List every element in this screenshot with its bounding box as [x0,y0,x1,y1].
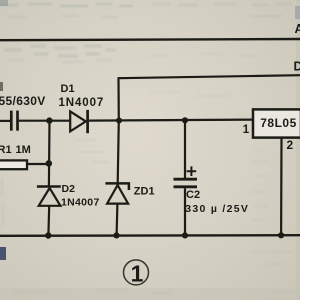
capacitor C1 [0,94,46,131]
wire D1 to regulator [89,120,253,121]
svg-text:A: A [295,22,301,36]
node junction at C2 column [182,117,188,123]
capacitor C2 330u/25V electrolytic [174,166,250,214]
diode D2 1N4007 [37,183,100,209]
svg-text:55/630V: 55/630V [0,94,46,108]
wire main rail from left edge to C1 [0,120,10,122]
node pin2 to bottom rail [278,232,284,238]
zener diode ZD1 [105,183,154,203]
node D2 bottom junction [45,232,51,238]
wire C2 column from rail down to C2 [184,120,186,178]
svg-text:1: 1 [131,260,144,286]
wire regulator pin 2 down to bottom rail [280,138,283,236]
wire C2 to bottom rail [184,188,186,235]
svg-text:330 µ /25V: 330 µ /25V [185,203,249,215]
wire bottom rail [0,234,300,237]
svg-text:D1: D1 [61,83,75,95]
voltage regulator U1 78L05 [253,109,301,137]
svg-text:1: 1 [243,124,250,136]
diode D1 1N4007 [59,83,105,133]
node ZD1 bottom junction [113,232,119,238]
wire left column down through R1 node to D2 [48,121,51,187]
wire D2 to bottom rail [47,206,50,236]
svg-text:R1: R1 [0,144,12,156]
wire net D (horizontal line bending down at left) [119,75,301,120]
svg-text:ZD1: ZD1 [134,186,155,198]
wire net A (top horizontal line) [0,39,300,40]
dark scan marks at edges (decorative) [0,82,3,91]
svg-text:2: 2 [287,138,294,152]
svg-text:1N4007: 1N4007 [59,97,105,109]
svg-text:78L05: 78L05 [260,116,297,130]
svg-text:C2: C2 [186,189,200,201]
node C2 bottom junction [182,232,188,238]
wire ZD1 to bottom rail [115,204,118,236]
node junction at net D column [116,118,122,124]
resistor R1 1M [0,144,46,169]
svg-text:D2: D2 [62,183,76,195]
wire net D column continues down to ZD1 [118,121,119,184]
wire C1 to D1 [19,120,70,122]
node junction C1/D1/R1 column [46,117,52,123]
svg-text:D: D [294,60,301,74]
node R1 junction [46,160,53,167]
svg-text:1N4007: 1N4007 [61,197,100,209]
figure number 1 (circled) [124,260,149,286]
svg-text:1M: 1M [16,144,31,156]
